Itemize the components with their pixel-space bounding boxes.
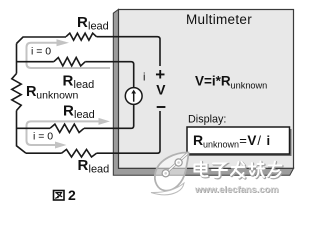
display equation Runknown = V/i <box>193 132 270 150</box>
resistor Rlead row2 <box>54 58 85 66</box>
label i=0 (bottom) <box>33 131 53 143</box>
wire row3 into panel from current source <box>84 105 134 129</box>
svg-text:/: / <box>257 133 261 148</box>
svg-text:R: R <box>78 157 89 174</box>
node rail left (bottom) <box>17 111 27 154</box>
svg-text:V: V <box>247 133 256 148</box>
wire row3 (current return lead) <box>17 127 51 129</box>
label Rlead row2 <box>63 73 95 92</box>
resistor Rlead row4 <box>62 149 97 157</box>
resistor Rlead row3 <box>50 124 84 132</box>
svg-text:lead: lead <box>89 164 110 176</box>
svg-text:=: = <box>239 133 247 148</box>
watermark logo leaf <box>151 152 189 194</box>
watermark url www.elecfans.com <box>194 184 279 196</box>
svg-text:i: i <box>143 72 145 84</box>
multimeter enclosure side face <box>113 9 293 175</box>
svg-text:V=i*R: V=i*R <box>195 74 231 89</box>
wire row1 into panel to voltmeter plus <box>97 37 161 66</box>
figure caption 图 2 <box>54 187 77 203</box>
label Multimeter <box>186 12 252 27</box>
wire row1 (V+ sense lead) <box>17 37 67 44</box>
svg-text:2: 2 <box>68 187 76 203</box>
label i=0 (top) <box>31 46 51 58</box>
display readout box <box>187 127 292 156</box>
wire row4 left chamfer <box>26 152 62 154</box>
svg-text:lead: lead <box>74 109 95 121</box>
svg-text:R: R <box>63 103 74 120</box>
label Rlead row4 <box>78 157 110 176</box>
svg-text:unknown: unknown <box>36 89 78 101</box>
resistor Rlead row1 <box>66 33 97 40</box>
watermark text dian zi fa shao you <box>195 162 282 178</box>
label i current <box>143 72 145 84</box>
node rail left (top) <box>16 44 18 74</box>
svg-text:R: R <box>77 14 88 31</box>
label Rlead row3 <box>63 103 95 122</box>
label Display: <box>188 113 226 125</box>
wire row4 from voltmeter minus out of panel <box>97 111 161 153</box>
wire row2 (current force lead) <box>17 61 54 63</box>
svg-text:lead: lead <box>88 21 109 33</box>
wire row2 into panel to current source <box>85 62 134 88</box>
svg-text:unknown: unknown <box>203 140 239 150</box>
gray current loop arrow (top, i=0 sense loop) <box>27 39 111 68</box>
svg-text:R: R <box>63 73 74 90</box>
voltmeter V <box>156 83 166 98</box>
label Rlead row1 <box>77 14 109 33</box>
svg-text:i: i <box>267 133 271 148</box>
voltmeter minus <box>157 106 166 108</box>
svg-text:Multimeter: Multimeter <box>186 12 252 27</box>
svg-text:i = 0: i = 0 <box>31 46 51 58</box>
label Runknown <box>26 84 78 102</box>
current source I <box>125 88 142 105</box>
svg-text:+: + <box>155 65 165 84</box>
resistor Runknown <box>12 74 21 111</box>
equation V = i * Runknown <box>195 74 267 91</box>
svg-text:V: V <box>156 83 166 98</box>
svg-text:R: R <box>193 132 203 148</box>
multimeter front panel <box>119 10 294 169</box>
svg-text:unknown: unknown <box>231 81 268 91</box>
voltmeter plus <box>155 65 165 84</box>
svg-text:Display:: Display: <box>188 113 226 125</box>
svg-text:i = 0: i = 0 <box>33 131 53 143</box>
gray current loop arrow (bottom, i=0 sense loop) <box>27 118 111 149</box>
svg-text:www.elecfans.com: www.elecfans.com <box>194 184 279 195</box>
